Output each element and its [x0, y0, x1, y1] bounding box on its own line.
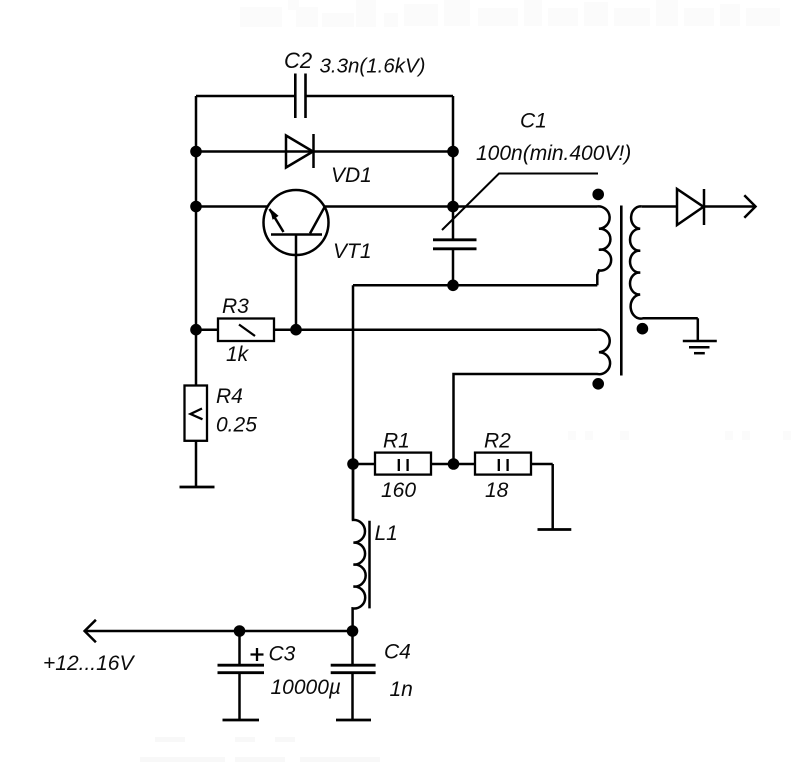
svg-text:160: 160 [381, 479, 416, 502]
resistor R1 [375, 453, 431, 475]
node R1-R2 [448, 458, 460, 470]
arrowhead supply [85, 620, 96, 643]
resistor R2 [475, 453, 531, 475]
svg-text:+12...16V: +12...16V [43, 652, 135, 675]
svg-text:VT1: VT1 [333, 240, 372, 263]
node right-VD1 [447, 146, 459, 158]
resistor R3 [218, 319, 274, 342]
inductor L1 [353, 464, 366, 631]
node left-VT1 [190, 201, 202, 213]
svg-text:VD1: VD1 [331, 164, 372, 187]
ground under C4 [336, 719, 371, 722]
phase dot primary 1 [592, 189, 604, 201]
arrowhead output [744, 195, 755, 217]
svg-text:C1: C1 [520, 110, 547, 133]
ground secondary [683, 341, 717, 353]
svg-text:R1: R1 [383, 430, 410, 453]
wire vertical x=353 [352, 285, 355, 520]
transformer T1 primary winding 2 [454, 330, 611, 464]
svg-text:C4: C4 [384, 641, 411, 664]
inductor L1 core [368, 521, 371, 609]
node left-VD1 [190, 146, 202, 158]
svg-text:R4: R4 [216, 385, 243, 408]
diode VD1 [286, 134, 314, 168]
wire resistor row y=464 [353, 463, 553, 466]
leader line C1 [442, 174, 598, 231]
resistor R4 [185, 386, 208, 441]
svg-text:0.25: 0.25 [216, 414, 257, 437]
wire bottom rail y=631 [85, 630, 353, 633]
wire R2 to ground [551, 464, 554, 530]
svg-text:10000µ: 10000µ [271, 676, 342, 699]
svg-text:C2: C2 [284, 48, 312, 73]
wire top bus y=96 [196, 95, 453, 98]
plus sign C3 [251, 648, 264, 661]
svg-text:18: 18 [485, 479, 509, 502]
node R1-left [347, 458, 359, 470]
capacitor C1 [433, 207, 477, 286]
phase dot secondary [637, 323, 649, 335]
node R3-right [290, 324, 302, 336]
wire VD1 row y=151.5 [196, 150, 453, 153]
svg-text:3.3n(1.6kV): 3.3n(1.6kV) [320, 55, 426, 78]
diode output [677, 189, 704, 225]
phase dot primary 2 [592, 378, 604, 390]
capacitor C2 [295, 74, 305, 119]
transformer T1 secondary winding [630, 206, 698, 318]
node C1-top [447, 201, 459, 213]
node C1-bottom [447, 280, 459, 292]
node C3-top [234, 625, 246, 637]
transistor VT1 [264, 190, 329, 255]
node R3-left [190, 324, 202, 336]
transformer T1 primary winding 1 [597, 206, 611, 285]
capacitor C3 [218, 631, 265, 719]
capacitor C4 [331, 631, 376, 719]
wire secondary bottom to ground [697, 318, 700, 341]
wire left rail x=196 [195, 96, 198, 386]
svg-text:C3: C3 [269, 643, 296, 666]
wire R4 to ground [195, 441, 198, 487]
wire collector bus y=206.5 [196, 205, 597, 208]
wire VT1 base x=296 [295, 235, 298, 330]
transformer T1 core [620, 206, 623, 376]
svg-text:1k: 1k [226, 343, 250, 366]
svg-text:100n(min.400V!): 100n(min.400V!) [476, 142, 631, 165]
svg-text:L1: L1 [375, 522, 398, 545]
wire output with arrow [704, 205, 754, 208]
svg-text:R3: R3 [222, 295, 249, 318]
ground under C3 [223, 719, 260, 722]
node C4-top [347, 625, 359, 637]
svg-text:1n: 1n [390, 678, 413, 701]
wire y=285.3 to transformer [353, 284, 597, 287]
ground under R4 [180, 486, 215, 489]
ground under R2 [538, 528, 572, 531]
svg-text:R2: R2 [484, 430, 511, 453]
wire base row y=329.7 [196, 328, 597, 331]
wire secondary top to diode [642, 205, 677, 208]
wire right rail x=453 [452, 96, 455, 207]
